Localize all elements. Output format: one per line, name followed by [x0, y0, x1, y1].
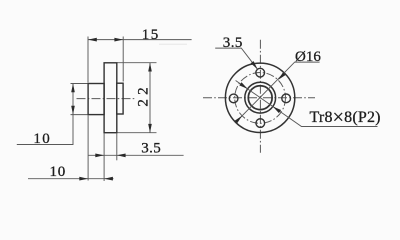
thread circle front view: [248, 86, 272, 110]
dimension 3.5 line: [88, 154, 184, 156]
dimension 22 text: [136, 83, 152, 106]
wire ghost line under 15 dimension: [159, 43, 187, 45]
dimension 15 arrows: [88, 38, 123, 42]
thread label Tr8x8(P2): [310, 107, 381, 129]
flange (side view): [104, 63, 117, 133]
dimension 10 bottom line: [28, 178, 114, 180]
hole 3.5 leader arrow: [251, 61, 258, 69]
hole 3.5 leader: [215, 48, 257, 69]
dimension 10 bottom arrows: [79, 177, 113, 181]
diameter 16 dimension line diagonal: [237, 62, 320, 121]
bolt hole right: [282, 94, 291, 103]
dimension 10 bottom extension line: [87, 115, 89, 180]
svg-text:15: 15: [142, 27, 160, 43]
vertical centerline front view: [259, 40, 261, 153]
svg-text:3.5: 3.5: [141, 141, 161, 157]
dimension 3.5 arrows: [95, 154, 125, 158]
wire centerline side view: [77, 98, 136, 100]
dimension 22 extension lines: [118, 63, 157, 133]
boss circle front view: [245, 82, 276, 113]
bolt hole bottom: [256, 119, 265, 128]
svg-text:22: 22: [136, 83, 152, 106]
dimension 3.5 extension lines: [104, 133, 117, 181]
svg-text:10: 10: [50, 164, 67, 180]
thread dimension arrows: [239, 82, 281, 113]
svg-text:3.5: 3.5: [223, 35, 243, 51]
boss nub (side view): [117, 83, 123, 114]
dimension 15 extension lines: [88, 37, 123, 83]
dimension 15 line: [88, 39, 192, 41]
svg-text:Tr8×8(P2): Tr8×8(P2): [310, 107, 381, 129]
svg-text:10: 10: [33, 131, 51, 147]
dimension 3.5 text: [141, 141, 161, 157]
nut body (side view): [88, 84, 104, 115]
dimension 22 line: [149, 63, 151, 133]
diameter 16 text: [295, 49, 321, 65]
bolt hole left: [229, 94, 238, 103]
thread Tr8x8 dimension line diagonal: [236, 81, 378, 127]
flange outer circle front view: [225, 63, 294, 132]
svg-text:Ø16: Ø16: [295, 49, 321, 65]
dimension 10 diameter arrows: [71, 84, 75, 115]
dimension 10 bottom text: [50, 164, 67, 180]
bolt hole top: [256, 68, 265, 77]
dimension 10 diameter extension lines: [71, 84, 88, 115]
dimension 22 arrows: [148, 63, 152, 133]
horizontal centerline front view: [203, 97, 315, 99]
dimension 10 diameter text: [33, 131, 51, 147]
dimension 10 diameter line with leader: [17, 84, 73, 145]
dimension 15 text: [142, 27, 160, 43]
diameter 16 arrows: [235, 72, 286, 123]
bolt circle dash-dot: [235, 73, 286, 124]
hole 3.5 text: [223, 35, 243, 51]
